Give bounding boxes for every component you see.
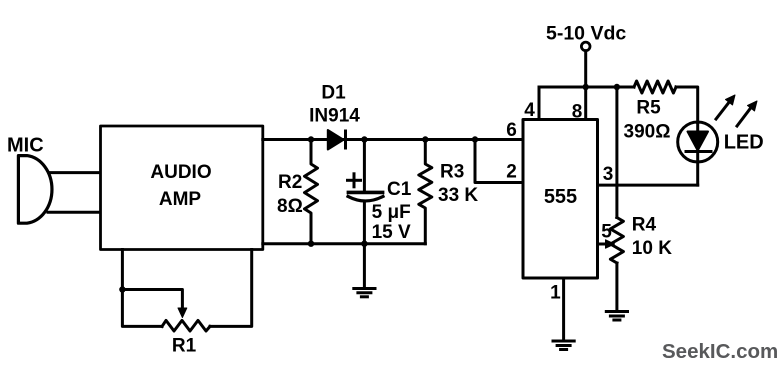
svg-text:R4: R4: [632, 215, 657, 236]
node R1 wiper junction: [119, 286, 125, 292]
resistor R5: [634, 81, 676, 93]
node diode cathode: [361, 136, 367, 142]
microphone MIC: [18, 156, 52, 224]
node diode anode: [308, 136, 314, 142]
svg-text:555: 555: [544, 186, 577, 208]
svg-text:4: 4: [524, 100, 535, 121]
capacitor C1: [348, 140, 383, 244]
node C1 bottom: [361, 241, 367, 247]
svg-text:8: 8: [572, 102, 583, 123]
wire R1 wiper: [122, 290, 186, 318]
wire: [263, 138, 523, 141]
wire top rail: [539, 86, 634, 89]
LED light arrow 1: [716, 95, 735, 119]
wire pin 5 arrow: [598, 240, 615, 248]
wire R4 branch: [615, 87, 618, 218]
wire: [210, 250, 252, 327]
svg-text:R3: R3: [440, 162, 464, 183]
wire: [676, 87, 698, 123]
resistor R3: [419, 140, 432, 244]
ground: [606, 312, 627, 321]
svg-text:IN914: IN914: [309, 106, 360, 127]
wire pin 4: [538, 87, 541, 120]
ground: [354, 289, 375, 297]
svg-text:10 K: 10 K: [632, 238, 672, 259]
svg-text:5: 5: [601, 222, 612, 243]
svg-text:R2: R2: [278, 172, 302, 193]
svg-text:MIC: MIC: [7, 135, 44, 157]
svg-text:3: 3: [603, 164, 614, 185]
wire pin 3: [598, 184, 698, 187]
svg-text:2: 2: [506, 162, 517, 183]
power terminal 5-10 Vdc: [581, 42, 590, 119]
svg-text:C1: C1: [387, 179, 412, 200]
wire: [615, 263, 618, 311]
audio amp block: [101, 126, 263, 250]
diode D1: [328, 130, 346, 150]
svg-text:1: 1: [550, 283, 561, 304]
svg-text:15 V: 15 V: [372, 222, 411, 243]
resistor R1: [162, 320, 210, 331]
node supply junction: [583, 84, 589, 90]
svg-text:D1: D1: [321, 83, 346, 104]
capacitor C1 plus sign: [348, 174, 361, 187]
wire pin 1: [562, 278, 565, 341]
LED D2: [678, 122, 718, 185]
svg-text:6: 6: [506, 120, 517, 141]
node pin2 branch: [472, 136, 478, 142]
svg-text:LED: LED: [724, 132, 764, 154]
resistor R4: [610, 218, 623, 264]
svg-text:8Ω: 8Ω: [277, 196, 303, 217]
LED light arrow 2: [737, 101, 757, 126]
svg-text:AUDIO: AUDIO: [150, 162, 211, 183]
wire: [48, 211, 101, 214]
svg-text:R5: R5: [636, 98, 661, 119]
svg-text:SeekIC.com: SeekIC.com: [662, 340, 778, 363]
node R4 branch: [614, 84, 620, 90]
resistor R2: [305, 140, 318, 244]
svg-text:5-10 Vdc: 5-10 Vdc: [546, 22, 626, 44]
svg-text:R1: R1: [172, 336, 197, 357]
wire: [49, 171, 101, 174]
wire: [263, 242, 426, 245]
wire pin 2: [475, 140, 523, 183]
svg-text:33 K: 33 K: [438, 185, 478, 206]
svg-text:5 μF: 5 μF: [372, 202, 411, 223]
wire: [363, 244, 366, 288]
svg-text:390Ω: 390Ω: [624, 122, 671, 143]
node R3 top: [422, 136, 428, 142]
ground: [553, 341, 574, 350]
wire: [122, 250, 162, 327]
svg-text:AMP: AMP: [159, 189, 202, 210]
IC U1 555: [523, 120, 598, 279]
node R2 bottom: [308, 241, 314, 247]
